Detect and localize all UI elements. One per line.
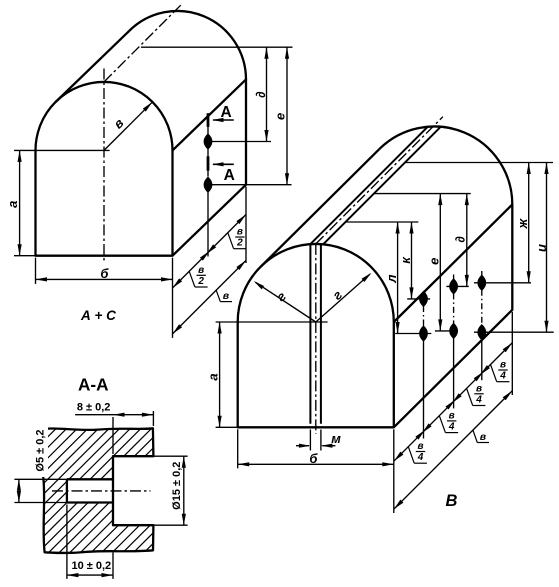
svg-text:в: в [223, 290, 230, 302]
svg-text:е: е [273, 113, 288, 120]
svg-text:4: 4 [448, 422, 455, 433]
svg-text:а: а [205, 373, 220, 380]
svg-text:∂: ∂ [453, 236, 468, 243]
svg-text:2: 2 [236, 238, 243, 249]
svg-text:А + С: А + С [80, 308, 116, 323]
svg-text:в: в [476, 383, 482, 394]
svg-text:м: м [331, 431, 341, 446]
svg-text:4: 4 [475, 394, 482, 405]
svg-text:А: А [220, 104, 231, 121]
svg-text:л: л [384, 275, 399, 284]
svg-text:∂: ∂ [253, 91, 268, 98]
svg-text:е: е [427, 258, 442, 265]
svg-text:Ø15 ± 0,2: Ø15 ± 0,2 [171, 462, 183, 510]
svg-text:4: 4 [499, 371, 506, 382]
svg-text:8 ± 0,2: 8 ± 0,2 [77, 402, 111, 414]
svg-text:в: в [198, 265, 204, 276]
svg-text:б: б [100, 266, 109, 281]
svg-text:В: В [445, 492, 457, 510]
svg-text:в: в [237, 227, 243, 238]
svg-text:ж: ж [515, 217, 530, 229]
svg-text:А: А [224, 167, 235, 184]
svg-text:в: в [417, 441, 423, 452]
svg-text:А-А: А-А [78, 374, 109, 394]
svg-text:Ø5 ± 0,2: Ø5 ± 0,2 [35, 429, 47, 471]
svg-text:в: в [449, 411, 455, 422]
svg-text:в: в [500, 360, 506, 371]
svg-text:б: б [309, 451, 318, 466]
svg-text:4: 4 [417, 452, 424, 463]
svg-text:10 ± 0,2: 10 ± 0,2 [71, 560, 111, 572]
svg-text:и: и [534, 244, 549, 252]
svg-text:а: а [5, 201, 20, 208]
svg-text:в: в [480, 431, 487, 443]
svg-text:2: 2 [197, 276, 204, 287]
